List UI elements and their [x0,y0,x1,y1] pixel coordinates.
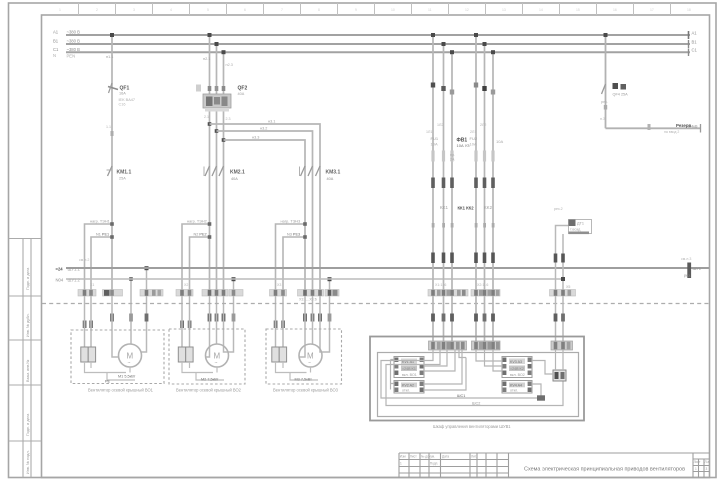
svg-text:Подп. и дата: Подп. и дата [26,413,30,436]
label KM3 [326,170,341,182]
svg-text:KM2.1: KM2.1 [230,170,245,176]
power bus L1 [66,34,690,36]
terminal strip XT3 in cabinet [551,341,573,350]
svg-text:Подп.: Подп. [430,462,439,466]
svg-text:Схема электрическая принципиал: Схема электрическая принципиальная приво… [524,467,685,473]
cabinet wiring left nest [381,350,563,406]
svg-text:M3 7,5кВт: M3 7,5кВт [295,378,313,382]
wire feed branch to group3 phase C [224,140,306,290]
fuse row small text [450,153,455,162]
svg-text:см.л.3: см.л.3 [681,257,691,261]
contact blocks groupA [431,253,454,264]
tick marks row [432,223,495,228]
svg-text:нагр. ТЭН1: нагр. ТЭН1 [90,220,110,224]
node sensor N tap [561,277,565,281]
contactor KM3 contacts [300,166,321,176]
wire number labels sprinkled [90,115,605,287]
wire groupA phase A drop [432,35,434,341]
wire group1 heater branch B [91,237,112,290]
svg-text:M2 7,5кВт: M2 7,5кВт [201,378,219,382]
faint column numbers top strip [59,8,691,12]
node branch taps to group3 [208,122,226,142]
svg-text:Лист: Лист [410,455,417,459]
svg-text:н3.3: н3.3 [252,136,259,140]
svg-text:н1.1: н1.1 [106,55,113,59]
svg-text:Инв. № дубл.: Инв. № дубл. [26,313,30,337]
wire group3 heater branch B [283,237,305,290]
terminal strip X1 group2 [176,290,243,297]
svg-text:№ докум.: № докум. [421,455,435,459]
heater element2b [186,347,193,362]
svg-text:4: 4 [170,8,172,12]
svg-text:вкл. BO2: вкл. BO2 [510,373,525,377]
tick on reserve run [648,124,651,130]
svg-text:пр.: пр. [450,153,455,157]
terminal strip X groupB [471,290,500,297]
ctrl bus right end terminal [681,257,702,278]
node taps [208,33,226,54]
svg-text:KV2 A2: KV2 A2 [402,384,414,388]
wire feed branch to group3 phase A [210,124,321,290]
svg-text:нагр. ТЭН3: нагр. ТЭН3 [281,220,301,224]
svg-text:Шкаф управления вентиляторами: Шкаф управления вентиляторами ШУВ1 [433,424,511,429]
svg-text:откл.: откл. [402,389,410,393]
wire labels [203,57,233,67]
svg-text:ШС2: ШС2 [472,402,480,406]
svg-text:X1:1..6: X1:1..6 [435,283,446,287]
svg-text:40A: 40A [231,177,238,181]
control cabinet inner panel [378,353,579,417]
wire group2 heater branch A [182,224,210,290]
overload heater blocks groupB [474,178,495,189]
wire group1 motor top from N bus [130,279,132,344]
terminal strip X groupC [550,290,576,297]
svg-text:1: 1 [400,462,402,466]
cabinet boundary dashed line [42,303,709,305]
disconnect marks groupA [431,83,454,95]
sheet box texts [694,460,710,471]
node group1 bus tap [110,33,114,37]
top numbering strip ticks [79,3,671,15]
svg-text:8: 8 [318,8,320,12]
svg-text:~: ~ [215,361,218,367]
heater element3a [272,347,279,362]
svg-text:14: 14 [539,8,543,12]
sensor box BK [569,220,592,235]
svg-text:1.1: 1.1 [106,125,111,129]
motor box2 internal wiring [182,362,224,380]
tick node wire1 [111,131,114,136]
svg-text:3: 3 [133,8,135,12]
motor M1 [119,344,142,367]
wire label [187,220,207,224]
svg-text:IEK BA47: IEK BA47 [119,98,135,102]
svg-text:Подп. и дата: Подп. и дата [26,267,30,290]
terminal row X2 group1 below dashed [83,314,149,329]
svg-text:вкл. BO1: вкл. BO1 [402,373,417,377]
svg-text:X1: X1 [90,283,94,287]
svg-text:2Л2: 2Л2 [480,123,486,127]
breaker QF1 [108,83,135,107]
svg-text:C1: C1 [53,47,59,52]
wire label [287,233,300,237]
node tap QF4 [604,33,608,37]
svg-text:40A: 40A [238,92,245,96]
svg-text:QF2: QF2 [238,86,248,92]
wire groupB phase C drop [492,52,494,341]
svg-text:FU2: FU2 [470,136,478,141]
wire group2 heater branch B [190,237,210,290]
svg-text:2Л1: 2Л1 [470,130,476,134]
svg-text:=24B K2: =24B K2 [510,367,524,371]
svg-text:3: 3 [706,467,708,471]
wires into motor box2 [182,296,229,357]
svg-text:на ввод 2: на ввод 2 [664,130,679,134]
svg-text:PEN: PEN [67,54,76,59]
svg-text:Инв. № подл.: Инв. № подл. [26,450,30,474]
node branch A [110,222,114,226]
label box2 caption [176,388,242,393]
label KM2 [230,170,245,182]
node [303,235,307,239]
svg-text:10: 10 [391,8,395,12]
control cabinet enclosure [370,337,584,421]
svg-text:B1: B1 [692,40,698,45]
terminal strip X groupA [428,290,468,297]
wire group3 heater branch A [276,224,306,290]
wire group3 motor right from N bus [322,279,330,352]
svg-text:=24B K1: =24B K1 [402,367,416,371]
wire group1 main drop [111,35,113,290]
svg-text:12: 12 [465,8,469,12]
svg-text:~: ~ [308,361,311,367]
label gnd [105,380,111,384]
svg-text:рез.: рез. [684,274,691,278]
svg-text:Вентилятор осевой крышный ВО1: Вентилятор осевой крышный ВО1 [88,388,154,393]
breaker QF4 symbol [601,83,628,110]
terminal strip XT1 in cabinet [429,341,467,350]
svg-text:2.3: 2.3 [226,117,231,121]
svg-text:10A: 10A [431,142,438,147]
svg-text:KM3.1: KM3.1 [326,170,341,176]
svg-text:т.возд: т.возд [570,228,581,232]
terminal strip X1 group3 [270,290,340,297]
svg-text:~380 B: ~380 B [67,30,81,35]
svg-text:Лит.: Лит. [471,455,477,459]
svg-text:п.3: п.3 [600,117,605,121]
wire group1 heater branch A [85,224,113,290]
svg-text:ШУ1.1: ШУ1.1 [68,267,81,272]
motor box1 internal wiring [85,362,136,380]
label reserve end [664,123,701,134]
svg-text:PE: PE [105,380,111,384]
svg-text:C16: C16 [119,103,126,107]
motor M3 [299,344,322,367]
power bus L3 [66,51,690,53]
label box3 caption [273,388,339,393]
input module A1 [553,370,566,381]
wire label branch B [96,233,109,237]
label box1 caption [88,388,154,393]
svg-text:10А: 10А [496,139,503,144]
svg-text:9: 9 [355,8,357,12]
terminal row X2 groupA [431,314,454,322]
svg-text:Вентилятор осевой крышный ВО3: Вентилятор осевой крышный ВО3 [273,388,339,393]
wire label [281,220,301,224]
svg-text:N3 PE3: N3 PE3 [287,233,300,237]
svg-text:16A: 16A [119,92,126,96]
left margin table [9,239,42,478]
svg-text:Дата: Дата [442,455,449,459]
wire group1 motor right from ctrl bus [142,268,147,352]
power bus L2 [66,43,690,45]
wire label on bottom run1 [457,394,545,401]
wire feed branch to group3 phase B [217,131,313,290]
svg-text:ШУ1.2: ШУ1.2 [68,278,81,283]
svg-text:N04: N04 [56,278,64,283]
wire groupB phase A drop [475,35,477,341]
relay module KV1 [394,357,424,378]
svg-text:KM1.1: KM1.1 [117,170,132,176]
svg-text:6: 6 [244,8,246,12]
fuse labels row [431,136,504,148]
svg-text:KV4 A4: KV4 A4 [510,384,522,388]
svg-text:см.л.2: см.л.2 [79,258,89,262]
svg-text:X5: X5 [566,285,570,289]
svg-text:11: 11 [428,8,432,12]
motor unit box1 dashed [71,330,164,384]
svg-text:КК1 КК2: КК1 КК2 [458,206,475,211]
svg-text:н2.1: н2.1 [203,57,210,61]
wire groupA phase C drop [451,52,453,341]
control bus N [66,278,563,280]
label PE1 [118,375,136,379]
breaker QF2 [196,85,247,112]
motor box3 internal wiring [276,362,319,380]
fuse bodies groupA [431,151,453,162]
svg-text:40A: 40A [327,177,334,181]
svg-text:рез.: рез. [601,100,608,104]
node [303,222,307,226]
svg-text:X3: X3 [277,283,281,287]
svg-text:X2: X2 [184,283,188,287]
svg-text:13: 13 [502,8,506,12]
node [129,277,133,281]
node branch B [110,235,114,239]
svg-text:рез.2: рез.2 [554,207,563,211]
svg-text:Изм: Изм [400,455,406,459]
terminal strip X1 group1 [78,290,163,297]
motor unit box2 dashed [169,329,245,384]
svg-text:н2.3: н2.3 [226,63,233,67]
contact blocks groupC [554,254,565,263]
svg-text:C1: C1 [692,48,698,53]
svg-text:FU1: FU1 [431,136,439,141]
title text [524,467,685,473]
svg-text:2.1: 2.1 [204,115,209,119]
contactor KM2 contacts [204,166,224,176]
cabinet wiring right nest [476,350,563,398]
motor M2 [206,344,229,367]
svg-text:2: 2 [96,8,98,12]
svg-text:N1 PE1: N1 PE1 [96,233,109,237]
svg-text:=24: =24 [56,267,64,272]
svg-text:откл.: откл. [510,389,518,393]
node taps groupA [431,33,454,54]
node [328,277,332,281]
svg-text:18: 18 [687,8,691,12]
svg-text:~: ~ [128,361,131,367]
svg-text:1: 1 [59,8,61,12]
svg-text:1: 1 [695,467,697,471]
svg-text:10A: 10A [470,142,477,147]
svg-text:~380 B: ~380 B [67,47,81,52]
wire sensor line 2 [562,234,564,341]
disconnect marks groupB [474,83,495,95]
node [232,277,236,281]
wire label [194,233,207,237]
svg-text:15: 15 [576,8,580,12]
motor unit box3 dashed [266,329,342,384]
label above strip C [566,285,570,289]
wire groupB phase B drop [484,44,486,341]
svg-text:25A: 25A [119,177,126,181]
svg-text:7: 7 [281,8,283,12]
svg-text:0,4кВ: 0,4кВ [688,124,698,128]
svg-text:10А УЗ: 10А УЗ [457,143,471,148]
svg-text:KK2: KK2 [484,205,493,210]
svg-text:н3.1: н3.1 [268,120,275,124]
wire group2 motor right from N bus [229,279,234,352]
breaker QF4 reserve drop [605,35,607,128]
node [208,235,212,239]
svg-text:5: 5 [207,8,209,12]
svg-text:M: M [127,352,134,361]
wire group2 phase B drop [216,44,218,290]
terminal row X2 group2 [180,314,235,329]
bus left labels [53,30,80,59]
label cabinet caption [433,424,511,429]
heater element2a [178,347,185,362]
svg-text:X2:1..6: X2:1..6 [477,283,488,287]
svg-text:17: 17 [650,8,654,12]
svg-text:нагр. ТЭН2: нагр. ТЭН2 [187,220,207,224]
svg-text:N2 PE2: N2 PE2 [194,233,207,237]
wire label on bottom run2 [472,402,480,406]
bus right labels [689,31,698,57]
svg-text:M1 5,5кВт: M1 5,5кВт [118,375,136,379]
svg-text:ШС1: ШС1 [457,394,465,398]
svg-text:н3.2: н3.2 [260,127,267,131]
svg-text:QF4 25A: QF4 25A [613,93,629,97]
node taps groupB [474,33,495,54]
reserve feeder run [606,127,701,129]
terminal row X2 group3 [274,314,332,329]
terminal row X2 groupC [554,314,565,322]
control bus 24V [66,267,709,269]
relay module KV4 [502,381,532,394]
svg-text:ДТ1: ДТ1 [577,222,584,226]
svg-text:Взам. инв.№: Взам. инв.№ [26,360,30,382]
wire group2 phase C drop [223,52,225,290]
fuse bodies groupB [474,151,494,162]
label under strip3 [299,298,317,302]
wire labels on branches [252,120,275,140]
relay module KV3 [502,357,532,378]
wire groupA phase B drop [443,44,445,341]
svg-text:16: 16 [613,8,617,12]
title block [399,453,710,478]
svg-text:1Л2: 1Л2 [437,123,443,127]
terminal strip XT2 in cabinet [472,341,501,350]
svg-text:A1: A1 [53,30,59,35]
wire label branch A [90,220,110,224]
overload heater blocks groupA [431,178,454,189]
svg-text:N: N [53,53,56,58]
relay module KV2 [394,381,424,394]
wire sensor line 1 [556,226,569,342]
terminal row X2 groupB [474,314,495,322]
svg-text:B1: B1 [53,39,59,44]
svg-text:KV3 A3: KV3 A3 [510,360,522,364]
svg-text:M: M [214,352,221,361]
svg-text:ШУ1: ШУ1 [693,266,702,271]
wire label [106,55,113,59]
wire group2 phase A drop [209,35,211,290]
svg-text:A1: A1 [692,31,698,36]
svg-text:2A: 2A [450,158,455,162]
heater element1a [81,347,88,362]
svg-text:Л-в: Л-в [705,460,710,464]
node [145,266,149,270]
svg-text:KK1: KK1 [440,205,449,210]
node [208,222,212,226]
contactor KM1 contact [107,166,132,181]
heater element1b [88,347,95,362]
label M2 [201,378,219,382]
heater element3b [279,347,286,362]
svg-text:1Л1: 1Л1 [426,130,432,134]
wires into motor box3 [276,296,323,357]
svg-text:M: M [307,352,314,361]
svg-text:Лист: Лист [694,460,701,464]
contact blocks groupB [474,253,495,264]
label M3 [295,378,313,382]
wires into motor box1 [85,296,119,357]
overload labels row [440,205,493,211]
ctrl bus left labels [56,258,90,283]
svg-text:Вентилятор осевой крышный ВО2: Вентилятор осевой крышный ВО2 [176,388,242,393]
svg-text:X3:1...X3:6: X3:1...X3:6 [299,298,317,302]
svg-text:~380 B: ~380 B [67,39,81,44]
title block header texts [400,455,477,466]
